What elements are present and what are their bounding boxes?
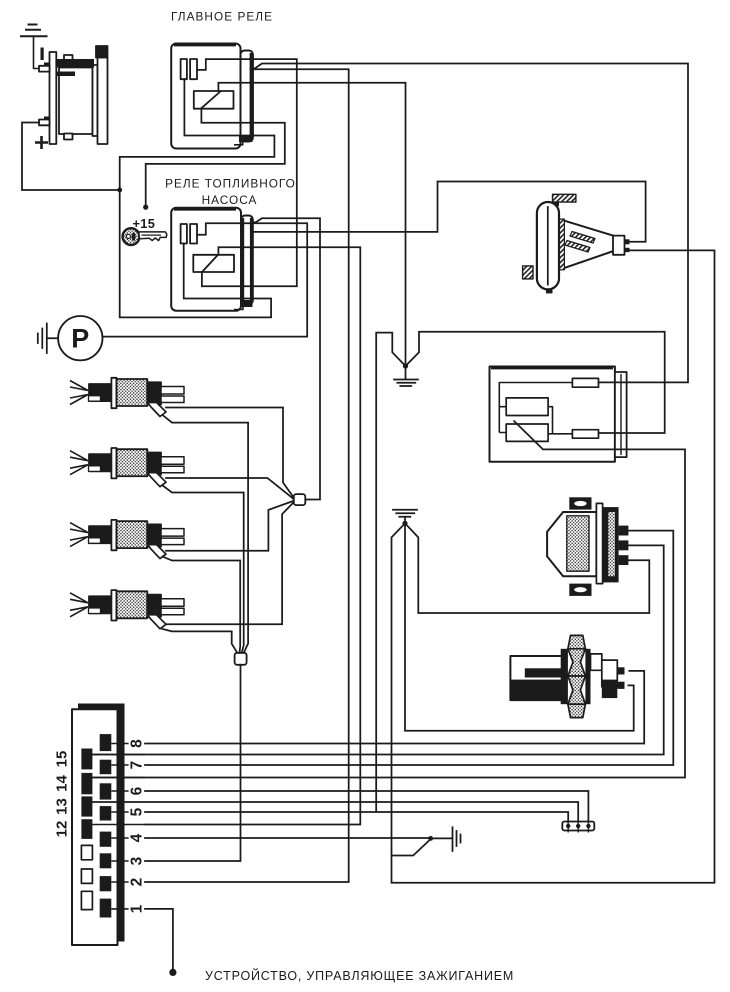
svg-text:5: 5 [129,807,146,816]
wire battery plus feed to relays ring [22,123,120,191]
wire injector4 bottom [163,629,238,653]
thermo time switch [510,635,624,717]
node injector bus square1 [294,494,306,505]
svg-text:12: 12 [54,821,71,838]
wire injector3 top [166,501,294,551]
svg-text:1: 1 [129,904,146,913]
svg-text:УСТРОЙСТВО, УПРАВЛЯЮЩЕЕ ЗАЖИГА: УСТРОЙСТВО, УПРАВЛЯЮЩЕЕ ЗАЖИГАНИЕМ [205,968,514,983]
ignition module (air flow sensor) [547,497,628,596]
throttle position sensor box [490,367,627,462]
svg-text:ГЛАВНОЕ РЕЛЕ: ГЛАВНОЕ РЕЛЕ [171,10,273,24]
wire fuel pump ground [38,324,58,354]
ECU pin stubs [111,744,128,909]
wire ECU pin 13 to coil connector [92,802,578,823]
throttle sensor top pin [572,378,598,387]
ECU pin 15 [81,749,92,770]
ECU pin 3 [100,853,112,868]
relay K2 fuel pump relay box [171,208,253,311]
battery GB [39,46,108,144]
wire fuel relay coil to ECU pin 12 [145,247,360,824]
wire ground2 right branch to ignition module pin3 [405,523,649,613]
cold start valve [523,194,630,293]
relay K2 coil [193,255,234,272]
node switch contact [428,836,433,841]
relay K2 bottom pin foot [234,300,253,310]
svg-text:РЕЛЕ ТОПЛИВНОГО: РЕЛЕ ТОПЛИВНОГО [165,177,296,191]
wire ECU pin 5 to coil connector and sensor ground [145,812,568,823]
svg-text:P: P [71,324,89,354]
injector 3 [70,520,184,559]
throttle sensor internal wiring [499,383,572,434]
wire ECU pin 6 to coil connector [145,791,588,823]
node injector bus square2 [235,653,247,665]
ECU pin 1 [100,899,112,918]
svg-text:3: 3 [129,856,146,865]
wire main relay to throttle sensor top pin (W2) [253,64,688,383]
wire throttle wiper to ECU pin 14 [92,449,685,777]
svg-text:НАСОСА: НАСОСА [202,193,258,207]
wire injector2 top [166,478,294,499]
throttle sensor resistor 2 with wiper [506,421,548,450]
injector 2 [70,448,184,487]
wire injector1 top [166,408,294,498]
svg-text:14: 14 [54,775,71,792]
svg-text:2: 2 [129,878,146,887]
wire ground2 center to thermo switch pin2 [405,523,634,731]
ECU connector X2 [72,704,125,946]
wire injector1 bottom [163,415,249,653]
wire ECU pin 3 to injector bus square2 [145,665,241,861]
relay K1 coil [194,91,234,109]
svg-text:4: 4 [129,833,146,842]
wire +15 feed [146,109,285,207]
svg-text:13: 13 [54,798,71,815]
ignition coil connector X1 [562,822,594,833]
ground 3 at switch [431,827,461,851]
injector 1 [70,378,184,417]
wire main relay contact to fuel relay coil (W1) [197,59,297,286]
wire ground1 right branch to throttle bottom pin [406,332,665,433]
svg-text:+15: +15 [133,216,156,231]
wire ignition module pin1 to ECU pin 7 [145,531,673,765]
wire ECU pin 1 to ignition control unit [145,909,173,973]
node ground1 junction [403,363,408,368]
ground 1 [394,366,418,386]
wire sensor ground branch to ground1 [376,333,405,812]
svg-text:7: 7 [129,761,146,770]
wire thermo switch pin1 to ECU pin 8 [145,671,644,744]
relay K1 bottom pin foot [234,136,252,145]
wire ECU pin 4 to full throttle switch contact [145,837,431,839]
svg-text:8: 8 [129,739,146,748]
ECU pin 5 [100,806,112,820]
ECU pin 7 [100,760,112,775]
relay K2 contacts [181,224,187,244]
node ground2 junction [402,521,407,526]
ground 2 [393,510,417,524]
throttle sensor resistor 1 [506,398,548,416]
wire injector3 bottom [163,557,241,653]
relay K1 contacts [181,59,187,79]
wire ignition module pin2 to ECU pin 15 [92,545,663,754]
battery GB plus terminal label [35,136,48,149]
throttle sensor bottom pin [572,430,598,439]
ECU pin 6 [100,783,112,799]
ECU pin 2 [100,876,112,891]
ECU pin 13 [81,796,92,816]
ECU spare pins [81,845,92,909]
battery GB minus terminal label [41,48,44,61]
wire main relay coil to ground (W4) [218,83,405,366]
ECU pin 8 [100,734,112,751]
node ignition control terminal [169,969,176,976]
wire fuel relay to cold start valve pin1 [253,182,646,242]
battery GB ground symbol [20,25,48,69]
wire ground2 left branch to cold valve loop and full throttle switch [392,250,715,882]
ignition key +15 [123,228,167,245]
svg-text:6: 6 [129,786,146,795]
svg-text:15: 15 [54,751,71,768]
ECU pin 12 [81,819,92,839]
wire injector2 bottom [163,486,244,653]
wire fuel relay to injector bus square1 [251,218,320,499]
relay K1 main relay box [171,44,253,149]
switch blade [392,839,431,856]
wire injector4 top [166,502,294,624]
fuel pump P [58,316,102,360]
injector 4 [70,590,184,629]
node battery junction [117,188,122,193]
wire main relay to ECU pin 2 (W3) [145,69,349,882]
node +15 terminal [143,205,148,210]
ECU pin 14 [81,773,92,794]
wire fuel relay to fuel pump P [103,223,308,336]
ECU pin 4 [100,832,112,847]
